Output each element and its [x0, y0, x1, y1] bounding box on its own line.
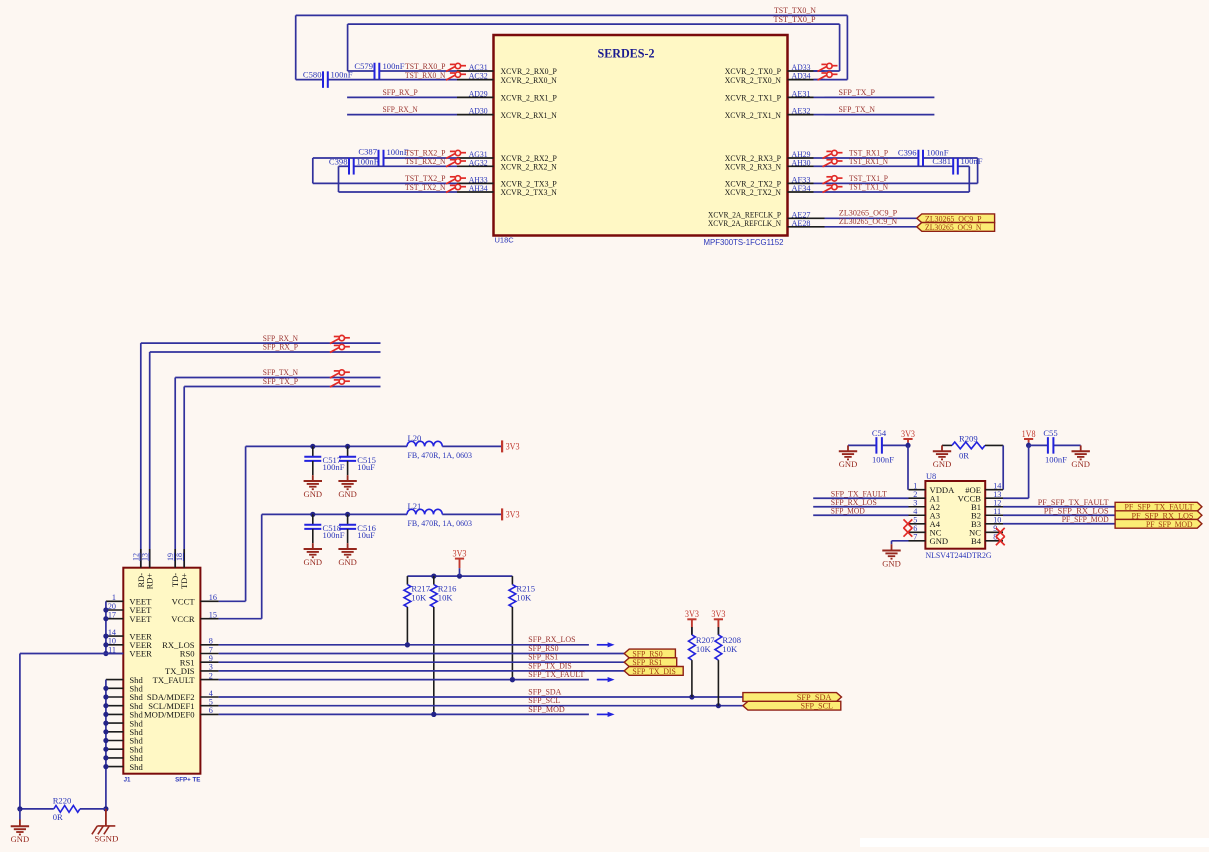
svg-text:XCVR_2_TX2_N: XCVR_2_TX2_N [725, 187, 782, 197]
svg-text:R209: R209 [959, 434, 978, 444]
U8 pin 12 B1 [985, 506, 1003, 508]
svg-text:RD-: RD- [137, 573, 146, 588]
left pin Shd [106, 687, 123, 689]
svg-text:C55: C55 [1043, 428, 1057, 438]
svg-text:AD34: AD34 [792, 71, 812, 81]
wire ZL30265_OC9_P row AE27 [825, 217, 917, 219]
capacitor C515 10uF [347, 446, 349, 456]
svg-text:2: 2 [209, 671, 213, 680]
ground under C517 [312, 475, 314, 481]
inductor L21 ferrite bead [407, 509, 442, 514]
svg-text:GND: GND [11, 835, 30, 844]
svg-text:U18C: U18C [495, 236, 515, 245]
wire SFP_MOD [219, 713, 589, 715]
U8 pin 5 A4 [909, 523, 926, 525]
diff marker AF34 [823, 184, 843, 192]
U8 block [925, 481, 985, 549]
svg-text:AD29: AD29 [469, 88, 488, 98]
svg-text:1V8: 1V8 [1022, 429, 1036, 439]
ground at U8 pin7 [891, 541, 893, 544]
svg-text:100nF: 100nF [331, 70, 353, 80]
svg-text:C54: C54 [872, 428, 887, 438]
svg-text:VEER: VEER [129, 649, 152, 659]
flag ZL30265_OC9_N [917, 223, 995, 232]
svg-text:5: 5 [209, 698, 213, 707]
left pin Shd [106, 757, 123, 759]
svg-text:C580: C580 [303, 70, 322, 80]
ground GND bottom-left [19, 809, 21, 820]
svg-text:100nF: 100nF [1045, 455, 1067, 465]
svg-text:AF34: AF34 [792, 183, 812, 193]
svg-text:C381: C381 [932, 156, 951, 166]
wire GND bottom [20, 808, 54, 810]
wire row AD33 to inner loop [814, 70, 840, 72]
pin AH29 XCVR_2_RX3_P stub [788, 157, 814, 159]
wire TST_RX2_N row AG32 [339, 165, 350, 167]
left pin Shd [106, 722, 123, 724]
wire TST_RX1_P row AH29 [825, 157, 919, 159]
svg-text:AC32: AC32 [469, 71, 488, 81]
wire VCC rail L20 [246, 445, 407, 447]
svg-text:TST_TX0_P: TST_TX0_P [774, 15, 816, 24]
resistor R207 10K [691, 627, 693, 635]
wire PF_SFP_RX_LOS from B2 [1003, 514, 1115, 516]
capacitor C381 [952, 158, 954, 175]
ground left of R209 [941, 445, 943, 451]
wire TST_TX2_P row AH33 [313, 182, 457, 184]
svg-text:16: 16 [209, 593, 217, 602]
svg-text:SFP_TX_FAULT: SFP_TX_FAULT [528, 669, 585, 679]
svg-text:GND: GND [338, 490, 357, 499]
resistor R217 10K [406, 576, 408, 585]
U8 pin 9 NC [985, 531, 1003, 533]
svg-text:7: 7 [913, 533, 917, 542]
pin AE28 XCVR_2A_REFCLK_N [788, 226, 825, 228]
left pin Shd [106, 731, 123, 733]
diff marker AC32 [446, 72, 466, 80]
resistor R220 0R [54, 806, 80, 813]
svg-text:100nF: 100nF [323, 530, 345, 540]
svg-text:L20: L20 [408, 433, 422, 443]
svg-text:GND: GND [304, 558, 323, 567]
svg-text:10K: 10K [516, 593, 532, 603]
svg-text:AH34: AH34 [469, 183, 489, 193]
flag PF_SFP_TX_FAULT [1115, 502, 1202, 511]
wire PF_SFP_MOD from B3 [1003, 523, 1115, 525]
pin AH33 XCVR_2_TX3_P stub [457, 182, 494, 184]
wire SFP_TX_P row AE31 [825, 96, 935, 98]
power 3V3 at L21 [501, 508, 503, 520]
svg-text:TX_FAULT: TX_FAULT [153, 675, 196, 685]
svg-text:0R: 0R [53, 812, 63, 822]
svg-text:TST_RX2_N: TST_RX2_N [405, 156, 446, 166]
svg-text:4: 4 [209, 689, 213, 698]
svg-text:100nF: 100nF [323, 462, 345, 472]
svg-text:ZL30265_OC9_N: ZL30265_OC9_N [925, 223, 982, 232]
svg-text:10uF: 10uF [357, 462, 375, 472]
pin AF33 XCVR_2_TX2_P stub [788, 182, 814, 184]
wire TST_TX0_P inner loop [348, 23, 840, 25]
pin AF34 XCVR_2_TX2_N stub [788, 191, 814, 193]
no-connect X pin6 [904, 528, 913, 537]
svg-text:10K: 10K [411, 593, 427, 603]
wire VCCR to rail2 [219, 618, 262, 620]
flag ZL30265_OC9_P [917, 214, 995, 223]
wire SFP_RS1 [219, 661, 625, 663]
svg-text:1: 1 [112, 593, 116, 602]
svg-text:GND: GND [1071, 460, 1090, 469]
diff marker SFP_TX_N [330, 370, 350, 378]
arrow SFP_RX_LOS [597, 644, 609, 646]
svg-text:L21: L21 [408, 501, 422, 511]
svg-text:SFP_RX_P: SFP_RX_P [383, 87, 418, 97]
svg-text:AE32: AE32 [792, 106, 811, 116]
flag SFP_RS1 [624, 658, 677, 667]
no-connect X pin8 [996, 536, 1005, 545]
svg-text:3V3: 3V3 [453, 548, 467, 558]
junction dots rail L20 [310, 444, 315, 449]
svg-text:SFP_TX_P: SFP_TX_P [263, 376, 298, 386]
diff marker AG32 [446, 159, 466, 167]
flag SFP_SDA right-pointing [743, 693, 842, 702]
svg-text:100nF: 100nF [961, 156, 983, 166]
svg-text:Shd: Shd [129, 762, 143, 772]
svg-text:GND: GND [933, 460, 952, 469]
svg-text:U8: U8 [926, 472, 936, 481]
left pin Shd [106, 705, 123, 707]
svg-text:10uF: 10uF [357, 530, 375, 540]
ground under C518 [312, 543, 314, 549]
inductor L20 ferrite bead [407, 441, 442, 446]
svg-text:SFP_TX_DIS: SFP_TX_DIS [632, 667, 676, 676]
svg-text:XCVR_2_TX3_N: XCVR_2_TX3_N [501, 187, 558, 197]
svg-text:SFP_MOD: SFP_MOD [831, 505, 865, 515]
svg-text:20: 20 [108, 602, 116, 611]
SFP+ connector J1 block [123, 568, 200, 774]
svg-text:19: 19 [166, 553, 175, 561]
svg-text:VCCT: VCCT [172, 597, 196, 607]
pin AH34 XCVR_2_TX3_N stub [457, 191, 494, 193]
svg-text:10K: 10K [722, 644, 738, 654]
bypass wire C54 3V3 [848, 444, 876, 446]
svg-text:NLSV4T244DTR2G: NLSV4T244DTR2G [926, 550, 992, 560]
svg-text:PF_SFP_MOD: PF_SFP_MOD [1146, 520, 1193, 529]
svg-text:13: 13 [141, 553, 150, 561]
resistor R209 0R [942, 444, 952, 446]
wire PF_SFP_TX_FAULT from B1 [1003, 506, 1115, 508]
diff marker AH33 [446, 176, 466, 184]
svg-text:3V3: 3V3 [901, 429, 915, 439]
left pin Shd [106, 679, 123, 681]
pin AE31 XCVR_2_TX1_P stub [788, 96, 814, 98]
ground left of C54 [847, 445, 849, 451]
wire SFP_RX_LOS [219, 644, 589, 646]
svg-text:GND: GND [882, 559, 901, 568]
diff marker SFP_TX_P [330, 379, 350, 387]
wire 1V8 to VCCB pin13 [1028, 445, 1030, 498]
svg-text:SGND: SGND [94, 835, 118, 844]
svg-text:TST_RX0_N: TST_RX0_N [405, 70, 446, 80]
power 3V3 at L20 [501, 440, 503, 452]
svg-text:SFP_MOD: SFP_MOD [528, 704, 565, 714]
diff marker AC31 [446, 63, 466, 71]
wire VCC rail L21 [262, 513, 407, 515]
wire SFP_RX_LOS to A2 [813, 506, 908, 508]
wire TST_RX0_N row AC32 [296, 79, 323, 81]
svg-text:18: 18 [175, 553, 184, 561]
svg-text:PF_SFP_MOD: PF_SFP_MOD [1062, 514, 1109, 524]
wire VCCT to rail1 [219, 600, 246, 602]
svg-text:12: 12 [132, 553, 141, 561]
svg-text:C579: C579 [354, 61, 373, 71]
svg-text:AE28: AE28 [792, 218, 811, 228]
capacitor C398 [348, 158, 350, 175]
svg-text:8: 8 [209, 637, 213, 646]
svg-text:14: 14 [108, 628, 116, 637]
svg-text:6: 6 [209, 706, 213, 715]
svg-text:J1: J1 [124, 777, 131, 784]
U8 pin 6 NC [909, 531, 926, 533]
svg-text:10K: 10K [696, 644, 712, 654]
U8 pin 1 VDDA [909, 489, 926, 491]
svg-text:TD+: TD+ [180, 573, 189, 589]
flag SFP_RS0 [624, 649, 675, 658]
svg-text:AD30: AD30 [469, 106, 488, 116]
svg-text:3V3: 3V3 [506, 510, 520, 520]
svg-text:XCVR_2_RX1_N: XCVR_2_RX1_N [501, 110, 558, 120]
pin AC32 XCVR_2_RX0_N stub [457, 79, 494, 81]
pin AC31 XCVR_2_RX0_P stub [457, 70, 494, 72]
U8 pin 13 VCCB [985, 497, 1003, 499]
wire SFP_TX_N [175, 377, 380, 379]
wire TST_TX2_N row AH34 [339, 191, 458, 193]
arrow SFP_TX_FAULT [597, 679, 609, 681]
svg-text:SFP_RX_P: SFP_RX_P [263, 342, 298, 352]
resistor R215 10K [511, 576, 513, 585]
flag SFP_SCL left-pointing [743, 701, 841, 710]
wire TST_TX1_P row AF33 [825, 182, 978, 184]
svg-text:GND: GND [304, 490, 323, 499]
svg-text:XCVR_2_RX0_N: XCVR_2_RX0_N [501, 75, 558, 85]
diff marker SFP_RX_N [330, 335, 350, 343]
chassis ground SGND [105, 809, 107, 826]
wire SFP_RX_P row AD29 [347, 96, 457, 98]
left pins VEET VEER Shd [106, 600, 123, 602]
diff marker AD34 [818, 72, 838, 80]
left pin Shd [106, 740, 123, 742]
capacitor C387 [378, 150, 380, 167]
wire TST_RX2_P row AG31 [313, 157, 379, 159]
diff marker AH34 [446, 184, 466, 192]
svg-text:TST_RX1_N: TST_RX1_N [849, 156, 889, 166]
wire SFP_TX_FAULT to A1 [813, 497, 908, 499]
wire 3V3 to VDDA pin1 [907, 445, 909, 489]
U8 pin 11 B2 [985, 514, 1003, 516]
wire TST_RX1_N row AH30 [825, 165, 954, 167]
svg-text:MPF300TS-1FCG1152: MPF300TS-1FCG1152 [704, 238, 784, 247]
svg-text:AH30: AH30 [792, 157, 811, 167]
svg-text:3V3: 3V3 [685, 609, 699, 619]
pin AD29 XCVR_2_RX1_P stub [457, 96, 494, 98]
svg-text:3V3: 3V3 [711, 609, 725, 619]
wire ZL30265_OC9_N row AE28 [825, 226, 917, 228]
svg-text:100nF: 100nF [357, 157, 379, 167]
wire SFP_SDA [219, 696, 743, 698]
diff marker AH29 [823, 150, 843, 158]
U8 pin 7 GND [909, 540, 926, 542]
ground under C515 [347, 475, 349, 481]
wire SFP_RX_P [150, 351, 381, 353]
ground under C516 [347, 543, 349, 549]
left pin Shd [106, 713, 123, 715]
capacitor C518 100nF [312, 514, 314, 524]
svg-text:GND: GND [338, 558, 357, 567]
pin AG32 XCVR_2_RX2_N stub [457, 165, 494, 167]
flag SFP_TX_DIS [624, 667, 683, 676]
pin AD30 XCVR_2_RX1_N stub [457, 114, 494, 116]
svg-text:9: 9 [209, 654, 213, 663]
svg-text:SFP_RX_N: SFP_RX_N [383, 104, 419, 114]
svg-text:7: 7 [209, 645, 213, 654]
no-connect X pin5 [904, 519, 913, 528]
arrow SFP_MOD [597, 713, 609, 715]
svg-text:C398: C398 [329, 156, 348, 166]
svg-text:FB, 470R, 1A, 0603: FB, 470R, 1A, 0603 [408, 519, 473, 528]
svg-text:3: 3 [209, 663, 213, 672]
wire SFP_TX_FAULT [219, 679, 589, 681]
pin AH30 XCVR_2_RX3_N stub [788, 165, 814, 167]
U8 pin 14 #OE [985, 489, 1003, 491]
capacitor C517 100nF [312, 446, 314, 456]
svg-text:SFP_TX_P: SFP_TX_P [839, 87, 876, 97]
wire TST_TX0_N top loop [296, 14, 848, 16]
svg-text:GND: GND [839, 460, 858, 469]
wire TST_RX0_P row AC31 [348, 70, 375, 72]
svg-text:3V3: 3V3 [506, 442, 520, 452]
U8 pin 4 A3 [909, 514, 926, 516]
svg-text:TD-: TD- [171, 573, 180, 587]
U8 pin 10 B3 [985, 523, 1003, 525]
U8 pin 3 A2 [909, 506, 926, 508]
svg-text:17: 17 [108, 611, 116, 620]
svg-text:AE31: AE31 [792, 88, 811, 98]
svg-text:15: 15 [209, 611, 217, 620]
svg-text:XCVR_2_TX1_N: XCVR_2_TX1_N [725, 110, 782, 120]
svg-text:C387: C387 [358, 147, 377, 157]
svg-text:XCVR_2_RX2_N: XCVR_2_RX2_N [501, 162, 558, 172]
svg-text:AG32: AG32 [469, 157, 488, 167]
ground right of C55 [1080, 445, 1082, 451]
wire SFP_SCL [219, 705, 743, 707]
wire SFP_TX_N row AE32 [825, 114, 935, 116]
wire GND pin7 [892, 540, 909, 542]
junction dots rail L21 [310, 512, 315, 517]
wire SFP_RS0 [219, 653, 625, 655]
left pin Shd [106, 748, 123, 750]
svg-text:C396: C396 [898, 147, 917, 157]
wire TST_TX1_N row AF34 [825, 191, 970, 193]
diff marker SFP_RX_P [330, 344, 350, 352]
wire R209 to #OE pin14 [1002, 445, 1004, 489]
svg-text:B4: B4 [971, 536, 982, 546]
svg-text:TST_TX1_N: TST_TX1_N [849, 182, 889, 192]
wire SFP_RX_N [141, 342, 381, 344]
svg-text:XCVR_2_RX3_N: XCVR_2_RX3_N [725, 162, 782, 172]
capacitor C516 10uF [347, 514, 349, 524]
svg-text:GND: GND [930, 536, 949, 546]
wire SFP_RX_N row AD30 [347, 114, 457, 116]
pin AG31 XCVR_2_RX2_P stub [457, 157, 494, 159]
flag PF_SFP_MOD [1115, 519, 1202, 528]
Shd tie rail to SGND [105, 680, 107, 809]
svg-text:VEET: VEET [129, 614, 152, 624]
diff marker AH30 [823, 159, 843, 167]
capacitor C580 [322, 71, 324, 88]
diff marker AF33 [823, 176, 843, 184]
svg-text:0R: 0R [959, 450, 969, 460]
diff marker AG31 [446, 150, 466, 158]
svg-text:XCVR_2_RX1_P: XCVR_2_RX1_P [501, 93, 558, 103]
wire SFP_TX_P [184, 386, 380, 388]
VEER wire to GND rail [20, 653, 123, 655]
pin AD34 XCVR_2_TX0_N stub [788, 79, 814, 81]
svg-text:SFP+ TE: SFP+ TE [175, 777, 200, 784]
svg-text:ZL30265_OC9_N: ZL30265_OC9_N [839, 216, 898, 226]
svg-text:SERDES-2: SERDES-2 [598, 47, 655, 61]
wire pullup top rail [407, 575, 512, 577]
svg-text:10K: 10K [438, 593, 454, 603]
U8 pin 8 B4 [985, 540, 1003, 542]
U8 pin 2 A1 [909, 497, 926, 499]
svg-text:XCVR_2_TX0_N: XCVR_2_TX0_N [725, 75, 782, 85]
svg-text:R220: R220 [53, 796, 72, 806]
wire row AD34 to outer loop [814, 79, 848, 81]
white sheet margin bottom-right [860, 838, 1209, 847]
svg-text:XCVR_2_TX1_P: XCVR_2_TX1_P [725, 93, 781, 103]
svg-text:RD+: RD+ [146, 573, 155, 590]
SERDES-2 block U18C [494, 35, 788, 236]
svg-text:TST_TX2_N: TST_TX2_N [405, 182, 446, 192]
diff marker AD33 [818, 63, 838, 71]
wire SFP_TX_DIS [219, 670, 625, 672]
capacitor C396 [917, 150, 919, 167]
right pins of J1 [200, 600, 218, 602]
svg-text:100nF: 100nF [872, 455, 894, 465]
left pin Shd [106, 766, 123, 768]
capacitor C54 100nF [875, 437, 877, 454]
pin AE27 XCVR_2A_REFCLK_P [788, 217, 825, 219]
top pins 12 13 19 18 [140, 549, 142, 568]
svg-text:SFP_SCL: SFP_SCL [801, 702, 834, 711]
svg-text:XCVR_2A_REFCLK_N: XCVR_2A_REFCLK_N [708, 218, 782, 228]
left pin Shd [106, 696, 123, 698]
no-connect X pin9 [996, 528, 1005, 537]
svg-text:MOD/MDEF0: MOD/MDEF0 [144, 710, 195, 720]
flag PF_SFP_RX_LOS [1115, 511, 1202, 520]
resistor R216 10K [433, 576, 435, 585]
resistor R208 10K [717, 627, 719, 635]
VEET/VEER tie rail [105, 601, 107, 653]
capacitor C579 [374, 63, 376, 80]
svg-text:VCCR: VCCR [171, 614, 195, 624]
pin AD33 XCVR_2_TX0_P stub [788, 70, 814, 72]
wire SFP_MOD to A3 [813, 514, 908, 516]
svg-text:100nF: 100nF [383, 61, 405, 71]
svg-text:FB, 470R, 1A, 0603: FB, 470R, 1A, 0603 [408, 451, 473, 460]
svg-text:10: 10 [108, 637, 116, 646]
capacitor C55 100nF [1029, 444, 1048, 446]
pin AE32 XCVR_2_TX1_N stub [788, 114, 814, 116]
